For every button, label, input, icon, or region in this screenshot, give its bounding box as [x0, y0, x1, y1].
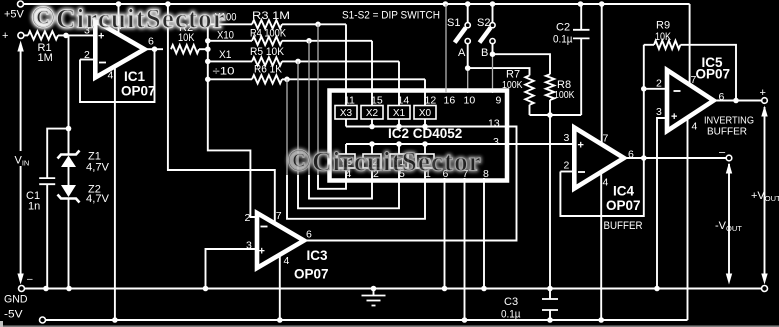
svg-text:2: 2	[564, 160, 570, 172]
svg-text:X3: X3	[340, 108, 353, 119]
svg-text:©CircuitSector: ©CircuitSector	[31, 0, 226, 35]
svg-text:©CircuitSector: ©CircuitSector	[287, 142, 482, 178]
svg-text:S1-S2 = DIP SWITCH: S1-S2 = DIP SWITCH	[342, 10, 440, 22]
svg-text:4,7V: 4,7V	[86, 193, 110, 205]
svg-text:A: A	[458, 47, 466, 59]
svg-text:IC1: IC1	[124, 69, 146, 84]
svg-text:X1: X1	[219, 49, 232, 61]
svg-text:3: 3	[564, 132, 570, 144]
svg-text:+: +	[2, 30, 8, 42]
svg-text:–: –	[719, 147, 726, 159]
svg-text:+: +	[259, 246, 265, 258]
svg-text:R6 1K: R6 1K	[254, 64, 283, 76]
svg-text:OP07: OP07	[121, 84, 156, 99]
svg-text:IC2 CD4052: IC2 CD4052	[388, 126, 462, 141]
svg-text:IC3: IC3	[307, 248, 329, 263]
svg-text:B: B	[481, 47, 488, 59]
svg-text:S2: S2	[477, 17, 490, 29]
svg-text:BUFFER: BUFFER	[707, 126, 747, 138]
svg-text:INVERTING: INVERTING	[704, 114, 754, 126]
svg-text:0.1µ: 0.1µ	[501, 309, 521, 321]
svg-text:–: –	[27, 274, 33, 285]
svg-text:6: 6	[306, 229, 312, 241]
svg-text:OP07: OP07	[606, 198, 641, 213]
svg-text:9: 9	[496, 95, 502, 107]
svg-text:C3: C3	[504, 296, 518, 308]
svg-text:10K: 10K	[655, 31, 672, 43]
svg-text:OP07: OP07	[294, 267, 329, 282]
svg-text:4,7V: 4,7V	[86, 162, 110, 174]
svg-text:10: 10	[464, 95, 476, 107]
svg-text:4: 4	[108, 70, 114, 82]
svg-text:7: 7	[276, 210, 282, 222]
svg-text:GND: GND	[4, 294, 28, 306]
svg-text:3: 3	[656, 106, 662, 118]
svg-text:4: 4	[603, 177, 609, 189]
svg-text:+: +	[671, 111, 677, 123]
svg-text:12: 12	[425, 95, 437, 107]
svg-text:2: 2	[656, 77, 662, 89]
svg-text:2: 2	[245, 212, 251, 224]
svg-text:IC4: IC4	[613, 184, 635, 199]
svg-text:R3 1M: R3 1M	[252, 10, 290, 22]
svg-text:1n: 1n	[28, 201, 40, 213]
svg-text:S1: S1	[447, 17, 460, 29]
svg-text:X1: X1	[393, 108, 406, 119]
svg-text:+5V: +5V	[4, 9, 25, 21]
svg-text:OP07: OP07	[696, 66, 731, 81]
svg-text:4: 4	[284, 255, 290, 267]
svg-text:R9: R9	[656, 20, 670, 32]
svg-text:+: +	[760, 87, 766, 99]
svg-text:-5V: -5V	[4, 309, 23, 321]
svg-text:10K: 10K	[178, 32, 195, 44]
svg-text:3: 3	[493, 136, 499, 148]
svg-text:X0: X0	[419, 108, 432, 119]
svg-text:100K: 100K	[554, 89, 575, 101]
svg-text:+: +	[578, 140, 584, 152]
svg-text:6: 6	[148, 36, 154, 48]
svg-text:16: 16	[444, 95, 456, 107]
svg-text:0.1µ: 0.1µ	[553, 34, 573, 46]
svg-text:BUFFER: BUFFER	[604, 220, 643, 232]
svg-text:4: 4	[692, 121, 698, 133]
svg-text:R4 100K: R4 100K	[250, 28, 287, 40]
svg-text:÷10: ÷10	[213, 66, 235, 78]
svg-text:13: 13	[488, 118, 500, 130]
svg-text:1M: 1M	[38, 52, 53, 64]
svg-text:X2: X2	[366, 108, 379, 119]
svg-text:C2: C2	[556, 22, 570, 34]
svg-text:R5 10K: R5 10K	[250, 46, 285, 58]
svg-text:7: 7	[603, 133, 609, 145]
